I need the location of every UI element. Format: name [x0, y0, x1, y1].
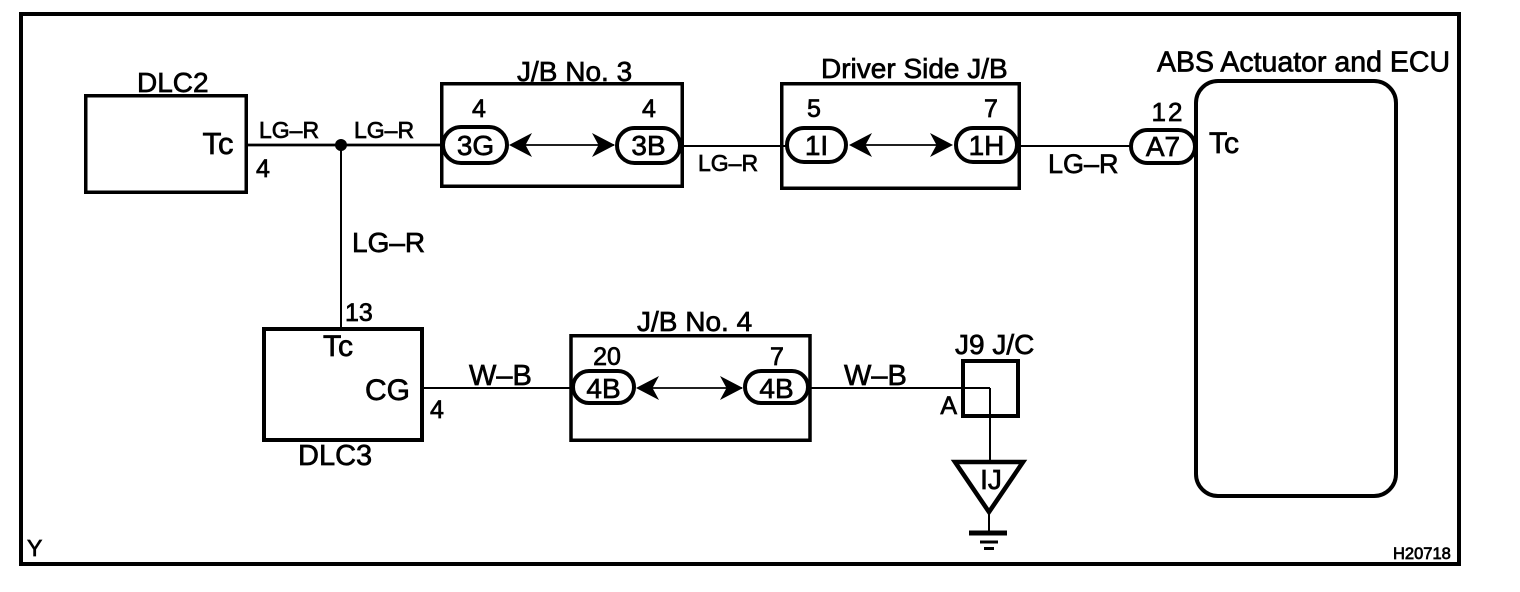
junction block J/B No. 3 — [442, 84, 683, 187]
wire inside J/B No.3 — [525, 144, 614, 146]
junction block J/B No. 4 — [571, 336, 810, 441]
svg-text:LG–R: LG–R — [698, 150, 758, 176]
svg-text:Tc: Tc — [323, 330, 353, 363]
svg-text:5: 5 — [807, 95, 821, 123]
svg-text:4: 4 — [430, 396, 444, 424]
connector oval 1I — [787, 128, 846, 162]
svg-text:3B: 3B — [631, 130, 665, 161]
svg-text:LG–R: LG–R — [259, 117, 319, 143]
svg-text:ABS Actuator and ECU: ABS Actuator and ECU — [1157, 47, 1450, 79]
svg-text:4: 4 — [472, 95, 486, 123]
svg-text:Y: Y — [27, 535, 42, 561]
svg-text:12: 12 — [1152, 97, 1185, 127]
svg-text:Tc: Tc — [1209, 127, 1239, 160]
svg-text:A: A — [940, 392, 957, 420]
svg-text:Driver Side J/B: Driver Side J/B — [821, 53, 1008, 84]
svg-text:20: 20 — [593, 343, 621, 371]
svg-text:4B: 4B — [759, 373, 793, 404]
svg-text:7: 7 — [770, 343, 784, 371]
svg-text:1I: 1I — [805, 130, 828, 161]
svg-text:W–B: W–B — [469, 360, 532, 392]
svg-text:LG–R: LG–R — [354, 117, 414, 143]
connector oval 4B right — [745, 371, 808, 404]
connector oval 4B left — [573, 371, 634, 404]
wire 1H to A7 (LG-R) — [1021, 145, 1131, 147]
svg-text:13: 13 — [345, 299, 373, 327]
arrow left (into 3G) — [509, 133, 532, 157]
arrow left (into 1I) — [849, 133, 872, 157]
connector oval 1H — [956, 128, 1017, 162]
ground symbol — [969, 533, 1007, 549]
junction connector J9 J/C — [963, 361, 1018, 416]
svg-text:CG: CG — [365, 374, 410, 407]
arrow right (into 3B) — [592, 133, 615, 157]
svg-text:DLC2: DLC2 — [137, 67, 209, 98]
svg-text:7: 7 — [984, 95, 998, 123]
connector DLC3 — [264, 329, 422, 440]
svg-text:LG–R: LG–R — [1048, 149, 1119, 179]
wire 3B to 1I (LG-R) — [682, 145, 786, 147]
svg-text:A7: A7 — [1146, 131, 1180, 162]
arrow left (into left 4B) — [636, 376, 659, 400]
wire 4B to J9 junction connector (W-B) — [810, 387, 990, 389]
svg-text:4: 4 — [256, 155, 270, 183]
wire junction down to DLC3 (LG-R) — [340, 145, 342, 328]
junction block Driver Side J/B — [782, 84, 1020, 189]
connector oval A7 — [1131, 130, 1195, 163]
svg-text:Tc: Tc — [203, 126, 234, 161]
wire inside J/B No.4 — [652, 387, 742, 389]
wire DLC3 CG to 4B (W-B) — [423, 387, 573, 389]
svg-text:J/B No. 3: J/B No. 3 — [517, 56, 632, 87]
svg-text:IJ: IJ — [980, 464, 1002, 495]
wire inside Driver Side J/B — [865, 144, 940, 146]
ECU ABS Actuator and ECU — [1196, 81, 1396, 496]
wire J9 down to ground triangle — [989, 388, 991, 462]
connector oval 3G — [443, 127, 507, 163]
arrow right (into 1H) — [930, 133, 953, 157]
svg-text:H20718: H20718 — [1393, 545, 1451, 563]
ground triangle IJ — [955, 462, 1023, 512]
svg-text:4B: 4B — [586, 373, 620, 404]
svg-text:3G: 3G — [457, 130, 494, 161]
svg-text:J/B No. 4: J/B No. 4 — [637, 306, 752, 337]
connector oval 3B — [617, 128, 680, 163]
arrow right (into right 4B) — [720, 376, 743, 400]
junction node — [335, 139, 347, 151]
svg-text:DLC3: DLC3 — [298, 440, 372, 472]
wire triangle apex to ground — [988, 512, 990, 533]
svg-text:1H: 1H — [969, 130, 1005, 161]
svg-text:W–B: W–B — [844, 360, 907, 392]
svg-text:J9 J/C: J9 J/C — [955, 329, 1034, 360]
wire DLC2 Tc to junction to 3G (LG-R) — [248, 144, 443, 147]
svg-text:4: 4 — [642, 95, 656, 123]
svg-text:LG–R: LG–R — [352, 227, 425, 258]
connector DLC2 — [86, 96, 247, 193]
